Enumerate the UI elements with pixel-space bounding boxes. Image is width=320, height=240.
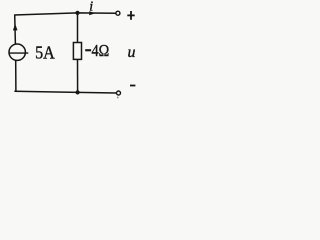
junction dot top	[75, 11, 79, 15]
svg-text:u: u	[128, 44, 136, 61]
terminal node top	[116, 11, 120, 15]
speck below bottom terminal	[117, 97, 118, 99]
label minus sign	[130, 85, 135, 87]
resistor R box	[73, 43, 81, 60]
terminal node bottom	[117, 91, 121, 95]
wire left upper	[14, 15, 17, 45]
wire bottom	[14, 91, 116, 93]
wire resistor branch upper	[77, 13, 79, 43]
current source bar	[9, 52, 29, 54]
svg-text:4Ω: 4Ω	[92, 41, 110, 60]
wire top	[14, 13, 116, 15]
svg-text:i: i	[89, 0, 93, 15]
arrowhead current i right	[89, 11, 95, 15]
current source IS circle	[9, 44, 25, 60]
background	[0, 0, 152, 108]
junction dot bottom	[76, 90, 80, 94]
arrowhead current direction up	[13, 24, 18, 31]
wire resistor branch lower	[77, 59, 79, 92]
wire left lower	[15, 60, 17, 91]
label -4ohm minus bar	[85, 49, 91, 51]
svg-text:5A: 5A	[35, 43, 55, 63]
label plus sign	[127, 14, 134, 16]
